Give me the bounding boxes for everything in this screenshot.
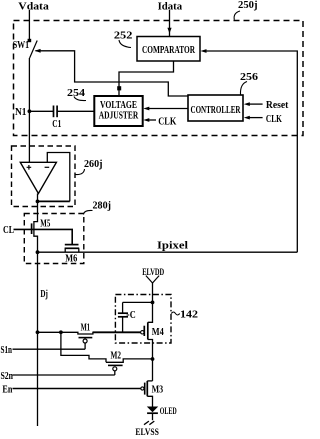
svg-text:280j: 280j	[93, 200, 112, 212]
svg-text:142: 142	[180, 308, 199, 320]
svg-text:S2n: S2n	[1, 370, 14, 382]
svg-text:CONTROLLER: CONTROLLER	[191, 104, 242, 116]
svg-text:C1: C1	[52, 118, 61, 130]
svg-text:OLED: OLED	[160, 407, 177, 417]
svg-text:M3: M3	[152, 383, 164, 395]
svg-text:CL: CL	[3, 224, 14, 236]
svg-text:COMPARATOR: COMPARATOR	[142, 44, 196, 56]
svg-text:252: 252	[114, 30, 133, 42]
svg-text:M6: M6	[65, 253, 77, 265]
svg-text:En: En	[2, 384, 12, 396]
svg-text:CLK: CLK	[266, 113, 282, 125]
svg-text:256: 256	[240, 71, 259, 83]
svg-text:N1: N1	[15, 106, 27, 118]
svg-text:CLK: CLK	[158, 116, 176, 128]
svg-text:Idata: Idata	[158, 0, 183, 12]
svg-text:260j: 260j	[84, 158, 103, 170]
svg-text:Dj: Dj	[40, 288, 48, 300]
svg-text:M5: M5	[40, 218, 50, 230]
svg-text:C: C	[130, 309, 136, 321]
svg-text:Ipixel: Ipixel	[157, 240, 188, 252]
svg-text:250j: 250j	[238, 0, 258, 11]
svg-text:Vdata: Vdata	[18, 1, 49, 13]
svg-text:254: 254	[67, 87, 86, 99]
svg-text:ADJUSTER: ADJUSTER	[99, 110, 139, 122]
svg-text:ELVSS: ELVSS	[135, 428, 159, 438]
svg-text:M1: M1	[81, 322, 91, 334]
svg-text:Reset: Reset	[266, 99, 289, 111]
svg-text:M2: M2	[111, 350, 122, 362]
svg-text:ELVDD: ELVDD	[142, 268, 164, 278]
svg-text:M4: M4	[152, 326, 164, 338]
svg-text:SW1: SW1	[13, 39, 30, 51]
svg-text:S1n: S1n	[1, 344, 13, 356]
